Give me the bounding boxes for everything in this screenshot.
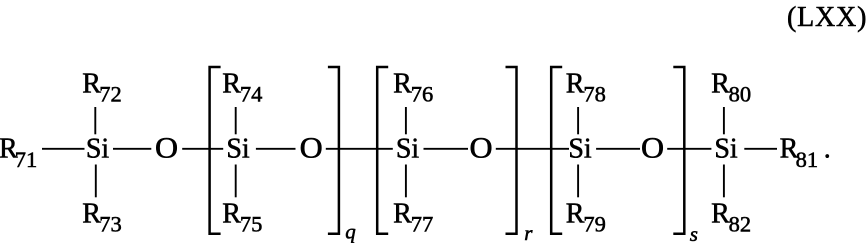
- bond Si5-R80: [723, 107, 725, 134]
- svg-text:78: 78: [583, 82, 606, 107]
- svg-text:q: q: [345, 219, 356, 243]
- bond Si2-O2: [256, 148, 296, 150]
- bond Si3-O3: [424, 148, 469, 150]
- svg-text:71: 71: [15, 147, 38, 172]
- svg-text:R: R: [566, 198, 585, 229]
- bond R71-Si1: [42, 148, 85, 150]
- bracket s right: [673, 67, 684, 234]
- bracket r left: [377, 67, 388, 234]
- svg-text:74: 74: [240, 82, 263, 107]
- bond Si1-R73: [95, 165, 97, 198]
- bond Si1-O1: [113, 148, 151, 150]
- svg-text:R: R: [222, 68, 241, 99]
- svg-text:Si: Si: [86, 134, 110, 165]
- svg-text:R: R: [566, 68, 585, 99]
- svg-text:Si: Si: [396, 134, 420, 165]
- svg-text:73: 73: [99, 212, 122, 237]
- bracket q right: [328, 67, 339, 234]
- svg-text:77: 77: [411, 212, 434, 237]
- svg-text:81: 81: [796, 147, 819, 172]
- svg-text:82: 82: [729, 212, 752, 237]
- bracket s left: [551, 67, 562, 234]
- bond Si5-R81: [744, 148, 777, 150]
- bracket r right: [506, 67, 517, 234]
- svg-text:s: s: [690, 222, 698, 243]
- svg-text:72: 72: [99, 82, 122, 107]
- svg-text:r: r: [524, 221, 533, 243]
- bond O3-Si4: [496, 148, 569, 150]
- svg-text:O: O: [641, 132, 664, 164]
- svg-text:76: 76: [411, 82, 434, 107]
- svg-text:75: 75: [240, 212, 263, 237]
- bond Si4-R79: [577, 165, 579, 198]
- svg-text:80: 80: [729, 82, 752, 107]
- svg-text:Si: Si: [226, 134, 250, 165]
- svg-text:.: .: [824, 134, 831, 165]
- svg-text:R: R: [222, 198, 241, 229]
- svg-text:Si: Si: [714, 134, 738, 165]
- svg-text:Si: Si: [568, 134, 592, 165]
- bond O2-Si3: [326, 148, 393, 150]
- bond Si2-R75: [235, 165, 237, 198]
- bond Si1-R72: [94, 107, 96, 134]
- svg-text:(LXX): (LXX): [787, 2, 867, 33]
- svg-text:R: R: [711, 198, 730, 229]
- svg-text:79: 79: [583, 212, 606, 237]
- bond Si3-R76: [405, 107, 407, 134]
- svg-text:R: R: [393, 198, 412, 229]
- svg-text:O: O: [469, 132, 492, 164]
- bond Si4-R78: [577, 107, 579, 134]
- bond Si5-R82: [723, 165, 725, 198]
- bracket q left: [210, 67, 221, 234]
- bond O1-Si2: [182, 148, 223, 150]
- bond O4-Si5: [667, 148, 711, 150]
- svg-text:O: O: [300, 132, 323, 164]
- bond Si3-R77: [405, 165, 407, 198]
- bond Si2-R74: [235, 107, 237, 134]
- svg-text:R: R: [393, 68, 412, 99]
- svg-text:O: O: [155, 132, 178, 164]
- svg-text:R: R: [711, 68, 730, 99]
- bond Si4-O4: [596, 148, 640, 150]
